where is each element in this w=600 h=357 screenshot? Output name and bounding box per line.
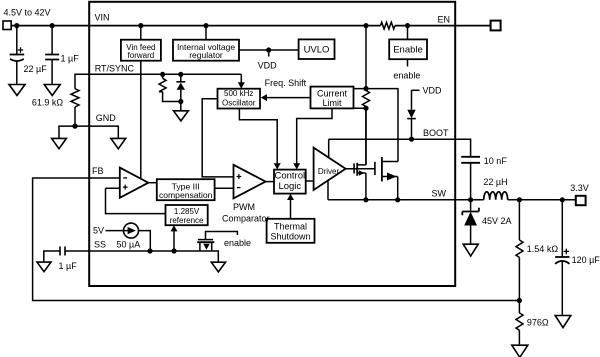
svg-text:FB: FB: [92, 166, 104, 176]
svg-text:Freq. Shift: Freq. Shift: [265, 78, 307, 88]
svg-text:Limit: Limit: [322, 98, 342, 108]
svg-text:1.285V: 1.285V: [174, 207, 200, 216]
svg-text:Current: Current: [317, 88, 348, 98]
svg-text:SS: SS: [94, 240, 106, 250]
svg-text:VDD: VDD: [423, 86, 443, 96]
svg-text:22 µF: 22 µF: [24, 64, 48, 74]
svg-text:1.54 kΩ: 1.54 kΩ: [527, 244, 559, 254]
svg-text:1 µF: 1 µF: [61, 53, 80, 63]
svg-text:regulator: regulator: [189, 50, 223, 60]
svg-text:reference: reference: [170, 216, 204, 225]
svg-text:compensation: compensation: [159, 190, 213, 200]
svg-text:Shutdown: Shutdown: [270, 232, 310, 242]
svg-text:10 nF: 10 nF: [484, 156, 508, 166]
svg-text:50 µA: 50 µA: [117, 239, 141, 249]
svg-text:500 kHz: 500 kHz: [224, 89, 253, 98]
svg-text:61.9 kΩ: 61.9 kΩ: [32, 97, 64, 107]
svg-text:enable: enable: [393, 70, 420, 80]
svg-text:Oscillator: Oscillator: [222, 98, 256, 107]
svg-text:976Ω: 976Ω: [527, 318, 549, 328]
svg-text:Comparator: Comparator: [222, 214, 270, 224]
svg-text:UVLO: UVLO: [304, 45, 330, 56]
svg-text:3.3V: 3.3V: [570, 183, 589, 193]
svg-text:Enable: Enable: [393, 45, 423, 56]
svg-text:EN: EN: [438, 14, 451, 24]
svg-text:120 µF: 120 µF: [572, 255, 600, 265]
svg-text:RT/SYNC: RT/SYNC: [95, 64, 135, 74]
svg-text:PWM: PWM: [233, 202, 255, 212]
svg-text:Driver: Driver: [318, 167, 340, 176]
svg-text:VDD: VDD: [258, 61, 278, 71]
svg-text:forward: forward: [128, 51, 155, 60]
svg-text:Logic: Logic: [278, 181, 301, 192]
svg-text:enable: enable: [224, 238, 251, 248]
svg-text:22 µH: 22 µH: [483, 177, 507, 187]
svg-text:Thermal: Thermal: [274, 221, 307, 231]
svg-text:1 µF: 1 µF: [59, 261, 78, 271]
svg-text:45V 2A: 45V 2A: [482, 216, 512, 226]
svg-text:5V: 5V: [93, 225, 104, 235]
svg-text:GND: GND: [96, 113, 117, 123]
svg-text:4.5V to 42V: 4.5V to 42V: [4, 7, 51, 17]
svg-text:VIN: VIN: [95, 13, 110, 23]
svg-text:BOOT: BOOT: [423, 128, 449, 138]
svg-text:SW: SW: [432, 188, 447, 198]
svg-text:Control: Control: [274, 170, 305, 181]
